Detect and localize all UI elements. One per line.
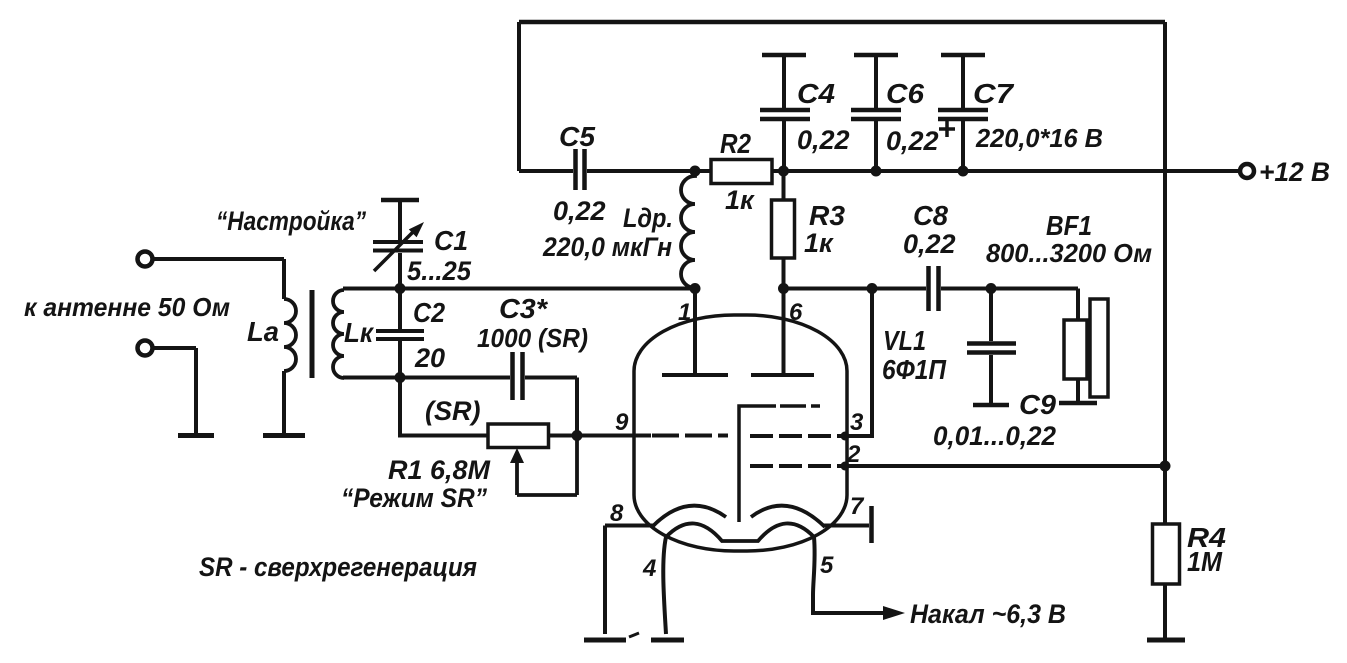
node junction C1/C2 top [395, 283, 406, 294]
anode pin 6 [751, 289, 814, 376]
node junction C7 on rail [958, 166, 969, 177]
wire pin 2 to R4 node [845, 464, 1165, 468]
terminal antenna lower [138, 341, 153, 356]
ground bar antenna lower [178, 433, 214, 438]
svg-text:0,22: 0,22 [553, 196, 606, 226]
svg-text:+12 В: +12 В [1259, 157, 1330, 187]
svg-text:1000 (SR): 1000 (SR) [477, 323, 588, 353]
wire C8 right to BF1 [941, 287, 1078, 291]
svg-text:1к: 1к [804, 228, 834, 258]
svg-text:C9: C9 [1019, 389, 1056, 420]
ground bar pin 7 [869, 506, 874, 543]
svg-text:8: 8 [610, 500, 624, 527]
svg-text:“Режим SR”: “Режим SR” [341, 483, 487, 513]
terminal +12 V [1240, 164, 1254, 178]
wire pin 5 lead to heater supply [813, 537, 883, 613]
svg-text:C7: C7 [973, 78, 1015, 109]
svg-text:La: La [247, 316, 279, 347]
svg-text:1: 1 [678, 299, 691, 326]
svg-text:R1 6,8М: R1 6,8М [388, 455, 491, 485]
svg-text:Lк: Lк [344, 317, 375, 348]
stray tick mark [629, 633, 639, 637]
svg-text:0,22: 0,22 [886, 126, 939, 156]
wire pin6 node to C8 [784, 287, 927, 291]
svg-text:“Настройка”: “Настройка” [216, 206, 366, 236]
svg-text:5: 5 [820, 552, 834, 579]
capacitor C2 [398, 289, 402, 330]
wire R1 right lead [549, 434, 578, 438]
resistor R2 [711, 160, 772, 184]
svg-text:220,0 мкГн: 220,0 мкГн [542, 232, 672, 262]
svg-text:C3*: C3* [499, 293, 548, 324]
node junction grid leak [572, 430, 583, 441]
wire pin 4 lead [663, 537, 666, 634]
ground bar pin 8 [584, 638, 626, 643]
wire Lk top lead [343, 287, 400, 291]
svg-text:7: 7 [850, 493, 865, 520]
node junction C9 [986, 283, 997, 294]
anode pin 1 [662, 289, 728, 376]
svg-text:VL1: VL1 [883, 325, 926, 356]
ground bar under C9 [973, 403, 1009, 408]
node junction R4 top [1160, 461, 1171, 472]
svg-text:R2: R2 [720, 128, 751, 159]
svg-text:3: 3 [850, 409, 864, 436]
capacitor C3 [513, 352, 523, 400]
node junction to pin3 screen [867, 283, 878, 294]
terminal antenna upper [138, 252, 153, 267]
svg-text:C5: C5 [559, 121, 595, 152]
node junction at R2 left / Ldr top [690, 166, 701, 177]
wire tank top to pin1 [343, 287, 695, 291]
earphone BF1 [1076, 289, 1080, 321]
node pin3 exit [841, 432, 850, 441]
ground bar above C7 [941, 53, 985, 58]
wiper arrow of R1 [510, 448, 524, 463]
svg-text:C8: C8 [913, 200, 948, 231]
wire pin 7 [824, 524, 869, 528]
svg-text:4: 4 [642, 555, 656, 582]
ground bar pin 4 [651, 638, 684, 643]
wire C3 right to grid node [525, 378, 577, 436]
wire tank bottom to R1 [400, 378, 488, 436]
ground bar La [263, 433, 305, 438]
wire pin 9 lead [577, 434, 651, 438]
wire top rail [519, 20, 1165, 25]
variable capacitor C1 [398, 253, 402, 289]
capacitor C7 polarized [961, 57, 965, 108]
wire antenna lower [153, 348, 196, 433]
resistor R4 [1163, 466, 1167, 524]
wire La bottom [282, 371, 286, 433]
svg-text:220,0*16 В: 220,0*16 В [975, 123, 1103, 153]
svg-text:6Ф1П: 6Ф1П [882, 354, 947, 385]
inductor Lk [333, 290, 344, 378]
arrow of C1 [374, 231, 414, 271]
cathode triode arc [652, 506, 726, 527]
svg-text:0,22: 0,22 [903, 229, 956, 259]
node pin1 junction [690, 283, 701, 294]
wire antenna upper [153, 259, 284, 299]
svg-text:(SR): (SR) [425, 396, 481, 426]
wire left drop to C5 [517, 22, 521, 171]
svg-text:0,22: 0,22 [797, 125, 850, 155]
inductor Ldr 220,0 mkGn [681, 171, 695, 288]
svg-text:к антенне 50 Ом: к антенне 50 Ом [24, 292, 230, 322]
capacitor C4 [782, 57, 786, 108]
svg-text:0,01...0,22: 0,01...0,22 [933, 421, 1056, 451]
grid pin 9 dashed [652, 434, 728, 438]
node pin6 junction [778, 283, 789, 294]
wire right drop from rail to pin2 node [1163, 22, 1167, 466]
resistor R1 trimmer [488, 424, 549, 448]
ground bar above C6 [854, 53, 898, 58]
svg-text:6: 6 [789, 299, 803, 326]
wire C5 left lead [519, 169, 573, 173]
node pin2 exit [841, 462, 850, 471]
svg-text:Lдр.: Lдр. [623, 203, 673, 233]
plus sign of C7 [939, 121, 955, 137]
svg-text:Накал ~6,3 В: Накал ~6,3 В [910, 599, 1066, 629]
wire R2 leads [695, 169, 783, 173]
grid pin 2 dashed [750, 464, 843, 468]
wire pin 8 to ground [605, 526, 653, 635]
resistor R3 [782, 171, 786, 200]
capacitor C8 [929, 266, 939, 311]
svg-text:1М: 1М [1187, 546, 1223, 577]
svg-text:9: 9 [615, 409, 629, 436]
node junction C6 on rail [871, 166, 882, 177]
capacitor C5 [576, 149, 585, 190]
wire pin3 branch down [845, 289, 872, 437]
ground bar under R4 [1147, 638, 1185, 643]
tube VL1 envelope [634, 315, 847, 551]
transformer core [310, 290, 315, 378]
node junction at R2 right / C4 / R3 [778, 166, 789, 177]
svg-text:SR - сверхрегенерация: SR - сверхрегенерация [199, 552, 477, 582]
capacitor C6 [874, 57, 878, 108]
svg-text:C2: C2 [413, 297, 445, 328]
svg-text:C1: C1 [434, 225, 468, 256]
svg-text:5...25: 5...25 [407, 256, 472, 286]
inductor La [284, 299, 296, 371]
ground bar above C1 [381, 198, 419, 203]
cathode pentode arc [751, 506, 825, 527]
ground bar under BF1 [1059, 401, 1097, 406]
node junction C2 bottom [395, 372, 406, 383]
svg-text:C4: C4 [797, 78, 835, 109]
wire tank bottom [343, 376, 510, 380]
svg-text:2: 2 [846, 441, 861, 468]
heater filament [666, 523, 814, 541]
grid g3 bracket [739, 406, 776, 522]
svg-text:800...3200 Ом: 800...3200 Ом [986, 238, 1152, 268]
arrow heater supply [883, 606, 905, 620]
svg-text:BF1: BF1 [1046, 210, 1092, 241]
wire +12V rail [784, 169, 1240, 173]
svg-text:20: 20 [414, 343, 445, 373]
grid pin 3 dashed [750, 434, 843, 438]
svg-text:C6: C6 [886, 78, 924, 109]
svg-text:1к: 1к [725, 185, 755, 215]
capacitor C9 [989, 289, 993, 342]
wire C5 right lead [587, 169, 695, 173]
svg-text:R3: R3 [809, 200, 845, 231]
ground bar above C4 [762, 53, 806, 58]
